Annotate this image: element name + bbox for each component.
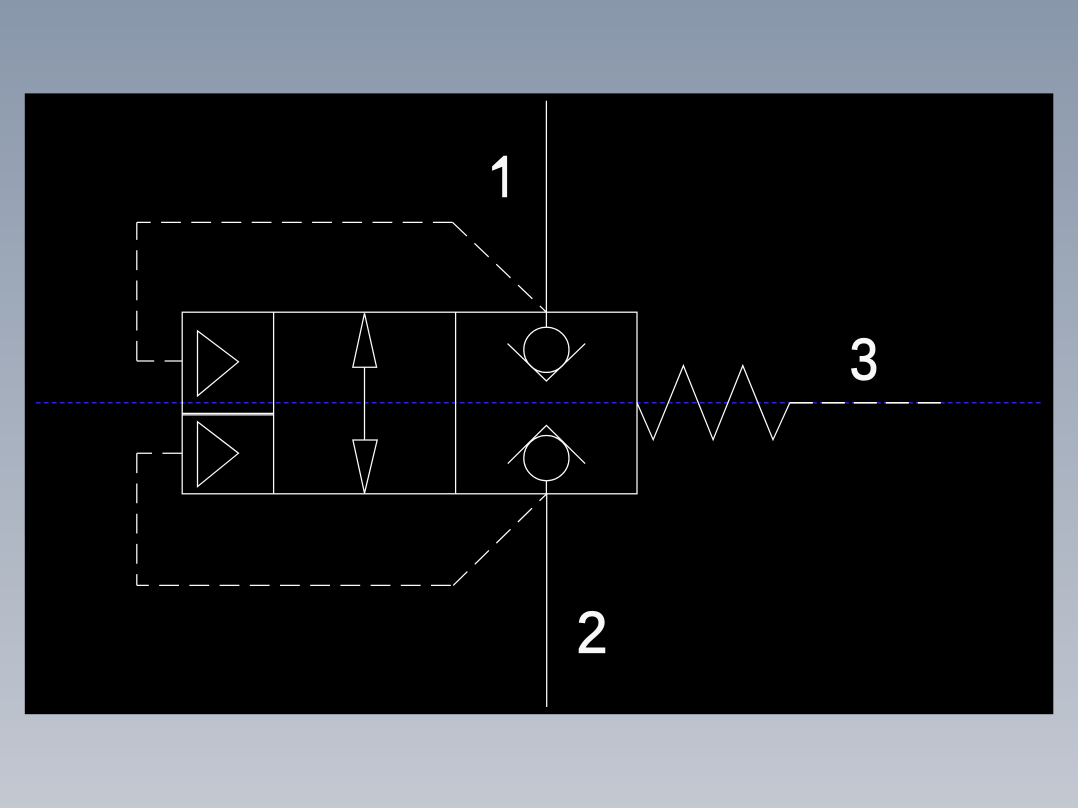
pilot line lower diagonal	[453, 494, 547, 586]
port label 1	[492, 156, 507, 197]
check valve 2 ball	[524, 436, 569, 481]
body divider middle/right	[455, 312, 457, 494]
pilot triangle lower	[198, 422, 239, 487]
pilot line upper diagonal	[453, 222, 547, 312]
svg-text:3: 3	[850, 328, 878, 393]
check valve 2 stub	[545, 481, 547, 494]
double arrow lower head	[353, 440, 377, 493]
double arrow upper head	[353, 313, 377, 367]
double arrow shaft	[364, 367, 366, 440]
body divider left/middle	[273, 312, 275, 494]
port 2 line	[546, 494, 548, 707]
pilot line upper-left stub to body	[137, 360, 182, 362]
check valve 2 seat	[508, 425, 585, 463]
check valve 1 seat	[508, 344, 586, 381]
pilot box divider lower line	[182, 414, 273, 416]
port label 3	[850, 328, 878, 393]
pilot triangle upper	[198, 331, 239, 396]
check valve 1 ball	[524, 327, 569, 372]
valve body outline	[182, 312, 637, 494]
drawing canvas	[25, 93, 1054, 714]
spring	[637, 366, 790, 440]
check valve 1 stub	[545, 312, 547, 327]
pilot line upper-left vertical	[136, 222, 138, 361]
port 1 line	[545, 101, 547, 313]
pilot line lower horizontal	[137, 584, 453, 586]
centerline (blue dashed axis)	[36, 402, 1043, 404]
pilot box divider upper line	[182, 412, 273, 414]
port 3 dashed wire	[790, 402, 941, 404]
pilot line lower-left vertical	[136, 453, 138, 585]
port label 2	[577, 602, 608, 666]
pilot line lower stub from body	[137, 452, 182, 454]
svg-text:2: 2	[577, 602, 608, 666]
pilot line upper horizontal	[137, 221, 453, 223]
